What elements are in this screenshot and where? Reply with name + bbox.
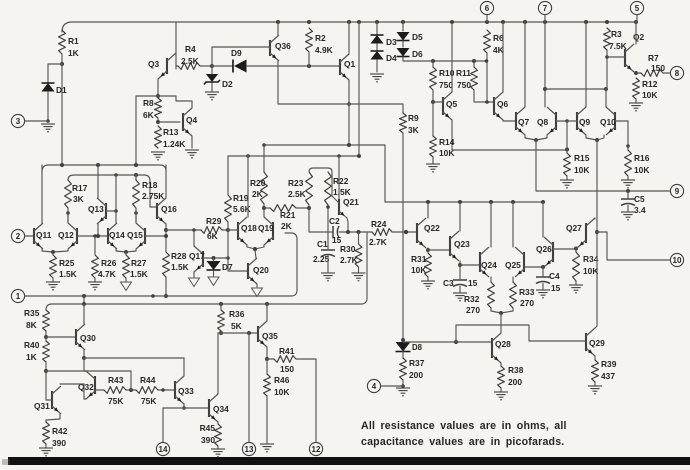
- wire: [264, 207, 270, 209]
- svg-text:Q16: Q16: [161, 204, 177, 214]
- resistor R13: [155, 126, 162, 148]
- wire: [358, 22, 360, 156]
- wire: [575, 249, 577, 252]
- wire Q28 base line: [403, 341, 492, 343]
- wire: [135, 175, 137, 180]
- svg-text:R12: R12: [642, 79, 658, 89]
- wire: [52, 252, 54, 255]
- svg-text:4K: 4K: [493, 45, 504, 55]
- node: [426, 248, 430, 252]
- wire Q31 emitter: [46, 414, 60, 422]
- svg-text:D4: D4: [386, 53, 397, 63]
- svg-text:R41: R41: [279, 346, 295, 356]
- node: [357, 230, 361, 234]
- svg-text:D3: D3: [386, 37, 397, 47]
- wire: [220, 304, 222, 310]
- svg-text:1K: 1K: [68, 48, 79, 58]
- terminal 9: [670, 184, 683, 197]
- node: [431, 59, 435, 63]
- svg-text:750: 750: [457, 80, 471, 90]
- node: [161, 388, 165, 392]
- svg-text:2.5K: 2.5K: [288, 189, 306, 199]
- resistor R19: [225, 195, 232, 222]
- capacitor C5: [621, 198, 635, 200]
- wire: [381, 385, 403, 387]
- wire Q17 emitter: [193, 272, 195, 277]
- wire Q18 collector: [247, 156, 249, 217]
- wire R17R18 line: [68, 175, 157, 207]
- resistor R26: [92, 255, 99, 278]
- node: [485, 59, 489, 63]
- wire Q12 emitter: [53, 249, 68, 252]
- svg-text:2K: 2K: [281, 221, 292, 231]
- terminal 7: [538, 1, 551, 14]
- wire pin10 jog: [597, 232, 670, 260]
- ground: [151, 151, 165, 153]
- terminal 8: [670, 66, 683, 79]
- wire: [48, 63, 62, 65]
- wire Q8 base: [556, 120, 567, 122]
- transistor Q25: [523, 252, 525, 272]
- svg-text:Q24: Q24: [481, 260, 497, 270]
- node: [337, 154, 341, 158]
- wire: [176, 65, 178, 67]
- wire 145 line: [264, 144, 385, 146]
- node: [307, 64, 311, 68]
- svg-text:R34: R34: [583, 254, 599, 264]
- node: [114, 209, 118, 213]
- wire Q31 collector lead: [60, 383, 84, 385]
- svg-text:Q13: Q13: [88, 204, 104, 214]
- svg-text:5K: 5K: [231, 321, 242, 331]
- transistor Q34: [208, 399, 210, 417]
- wire Q22 emitter: [427, 248, 429, 250]
- wire: [635, 99, 637, 103]
- resistor R2: [306, 28, 313, 52]
- capacitor C2: [332, 226, 334, 238]
- wire: [211, 66, 213, 74]
- node on 202 line: [458, 200, 462, 204]
- wire R9 column: [402, 104, 404, 113]
- wire Q15 emitter: [126, 249, 136, 252]
- node: [404, 230, 408, 234]
- transistor Q36: [269, 40, 271, 56]
- wire: [491, 308, 501, 313]
- diode D6: [397, 48, 410, 57]
- diode D9: [234, 60, 247, 73]
- wire Q26 base: [553, 248, 576, 250]
- wire Q11 collector: [41, 165, 43, 223]
- wire Q13 emitter: [97, 224, 99, 236]
- wire Q7Q8 emitters down: [535, 140, 537, 191]
- svg-text:10K: 10K: [583, 266, 598, 276]
- wire: [545, 88, 606, 90]
- svg-text:15: 15: [551, 283, 561, 293]
- svg-text:R13: R13: [163, 127, 179, 137]
- node: [219, 331, 223, 335]
- transistor Q3: [166, 58, 168, 74]
- wire R22 bottom: [327, 205, 329, 232]
- wire: [200, 65, 212, 67]
- wire Q16 collector: [165, 165, 167, 198]
- svg-text:Q7: Q7: [518, 117, 530, 127]
- resistor R25: [50, 255, 57, 278]
- node: [129, 388, 133, 392]
- wire: [278, 103, 403, 105]
- wire Q34 emitter: [217, 422, 219, 424]
- svg-text:D2: D2: [222, 79, 233, 89]
- wire: [45, 337, 47, 341]
- node: [151, 294, 155, 298]
- svg-text:2.7K: 2.7K: [369, 237, 387, 247]
- resistor R8: [155, 98, 162, 118]
- wire: [403, 60, 486, 62]
- wire Q11 emitter: [42, 249, 53, 252]
- wire Q21 base: [338, 156, 340, 199]
- svg-text:4: 4: [372, 382, 377, 391]
- transistor Q32: [94, 376, 96, 394]
- transistor Q22: [416, 223, 418, 243]
- wire: [94, 236, 96, 255]
- node on lower bus: [219, 302, 223, 306]
- transistor Q20: [247, 263, 249, 279]
- transistor Q11: [33, 228, 35, 244]
- transistor Q8: [555, 112, 557, 130]
- terminal 2: [11, 229, 24, 242]
- svg-text:Q2: Q2: [633, 32, 645, 42]
- ground: [321, 272, 335, 274]
- svg-text:Q3: Q3: [148, 59, 160, 69]
- wire Q1 collector: [348, 22, 350, 54]
- svg-text:150: 150: [280, 364, 294, 374]
- wire Q25 collector: [512, 202, 514, 247]
- wire: [45, 444, 47, 448]
- svg-text:R1: R1: [68, 36, 79, 46]
- wire: [135, 96, 137, 165]
- svg-text:2.5K: 2.5K: [181, 56, 199, 66]
- svg-text:R9: R9: [408, 113, 419, 123]
- node: [210, 64, 214, 68]
- resistor R3: [604, 28, 611, 50]
- svg-text:R39: R39: [601, 359, 617, 369]
- wire: [473, 61, 475, 67]
- wire R20 feed: [263, 145, 265, 172]
- node: [44, 369, 48, 373]
- ground: [426, 163, 440, 165]
- svg-text:C5: C5: [634, 194, 645, 204]
- svg-text:Q30: Q30: [80, 333, 96, 343]
- node on 202 line: [541, 200, 545, 204]
- svg-text:10K: 10K: [411, 265, 426, 275]
- wire lower bus: [46, 232, 367, 310]
- wire Q24 collector: [490, 202, 492, 247]
- node on V+ rail: [501, 20, 505, 24]
- wire: [486, 53, 488, 102]
- svg-text:200: 200: [409, 370, 423, 380]
- svg-text:R14: R14: [439, 137, 455, 147]
- svg-text:R36: R36: [229, 309, 245, 319]
- resistor R28: [163, 252, 170, 277]
- transistor Q17: [202, 251, 204, 267]
- svg-text:Q26: Q26: [536, 244, 552, 254]
- transistor Q7: [515, 112, 517, 130]
- svg-text:R30: R30: [340, 244, 356, 254]
- svg-text:R35: R35: [24, 308, 40, 318]
- node: [182, 406, 186, 410]
- wire Q1 emitter: [348, 80, 350, 145]
- node: [134, 211, 138, 215]
- node: [114, 173, 118, 177]
- svg-text:R2: R2: [315, 33, 326, 43]
- svg-text:R21: R21: [280, 210, 296, 220]
- node: [265, 357, 269, 361]
- resistor R1: [59, 30, 66, 54]
- node: [212, 256, 216, 260]
- resistor R6: [484, 30, 491, 53]
- svg-text:6K: 6K: [207, 231, 218, 241]
- svg-text:Q20: Q20: [253, 265, 269, 275]
- node: [543, 87, 547, 91]
- node: [357, 154, 361, 158]
- wire: [456, 325, 585, 342]
- svg-text:Q35: Q35: [262, 331, 278, 341]
- svg-text:3: 3: [16, 117, 21, 126]
- wire Q7 emitter: [525, 135, 536, 140]
- wire: [227, 156, 229, 195]
- wire Q29 collector: [595, 326, 597, 328]
- svg-text:Q22: Q22: [424, 223, 440, 233]
- wire Q6 emitter: [503, 120, 516, 121]
- svg-text:R25: R25: [59, 258, 75, 268]
- node: [346, 230, 350, 234]
- terminal 3: [11, 114, 24, 127]
- capacitor C4: [536, 276, 550, 278]
- wire Q27 emitter: [575, 248, 577, 249]
- wire Q5 emitter: [451, 120, 453, 150]
- wire Q12-Q14 bases: [77, 235, 108, 237]
- wire: [248, 333, 250, 442]
- svg-text:Q11: Q11: [36, 230, 52, 240]
- wire 202 line: [385, 201, 543, 203]
- transistor Q15: [144, 228, 146, 244]
- resistor R22: [325, 172, 332, 205]
- svg-text:Q34: Q34: [213, 404, 229, 414]
- wire: [358, 232, 360, 244]
- wire: [213, 258, 215, 261]
- wire Q13 base: [106, 210, 116, 212]
- terminal 10: [670, 253, 683, 266]
- resistor R9: [400, 113, 407, 133]
- transistor Q26: [552, 242, 554, 262]
- wire Q20 emitter: [256, 284, 258, 287]
- resistor R42: [43, 422, 50, 444]
- wire Q29 emitter: [594, 356, 596, 360]
- wire R22R23 tops: [309, 168, 332, 194]
- wire: [83, 296, 85, 304]
- node on V+ rail: [401, 20, 405, 24]
- wire: [594, 382, 596, 386]
- node: [534, 138, 538, 142]
- wire: [94, 278, 96, 282]
- node: [51, 250, 55, 254]
- svg-text:4.9K: 4.9K: [315, 45, 333, 55]
- wire terminal1 bus + guard box: [25, 233, 297, 296]
- ground: [121, 282, 132, 291]
- wire: [267, 358, 274, 360]
- svg-text:Q23: Q23: [454, 239, 470, 249]
- wire: [25, 235, 34, 237]
- svg-text:1.5K: 1.5K: [59, 269, 77, 279]
- wire: [428, 249, 450, 251]
- wire: [402, 57, 404, 61]
- node: [347, 102, 351, 106]
- ground: [588, 385, 602, 387]
- node: [626, 144, 630, 148]
- wire Q24 emitter: [490, 277, 492, 282]
- svg-text:3.4: 3.4: [634, 205, 646, 215]
- wire: [384, 145, 386, 202]
- svg-text:10K: 10K: [574, 165, 589, 175]
- terminal 4: [367, 379, 380, 392]
- wire: [222, 229, 228, 231]
- resistor R34: [573, 252, 580, 281]
- transistor Q4: [182, 113, 184, 131]
- node: [574, 247, 578, 251]
- node: [66, 211, 70, 215]
- wire: [67, 208, 69, 222]
- svg-text:1.5K: 1.5K: [171, 262, 189, 272]
- node: [326, 205, 330, 209]
- wire Q9 emitter: [586, 135, 597, 140]
- node: [499, 311, 503, 315]
- resistor R31: [425, 253, 432, 277]
- wire: [427, 250, 429, 253]
- node: [458, 263, 462, 267]
- wire Q4 emitter: [191, 136, 193, 148]
- node: [262, 143, 266, 147]
- wire: [566, 121, 568, 149]
- wire: [327, 232, 329, 250]
- resistor R46: [264, 374, 271, 396]
- node: [253, 247, 257, 251]
- wire Q18 emitter: [247, 245, 255, 249]
- svg-text:390: 390: [52, 438, 66, 448]
- wire Q20 base: [228, 270, 248, 272]
- svg-text:R40: R40: [24, 340, 40, 350]
- resistor R39: [592, 360, 599, 382]
- wire Q4 base: [158, 121, 180, 123]
- wire: [473, 90, 475, 101]
- wire Q10 emitter: [597, 135, 604, 140]
- diode D5: [397, 32, 410, 41]
- node: [485, 100, 489, 104]
- node: [347, 143, 351, 147]
- ground: [41, 123, 55, 125]
- resistor R12: [633, 78, 640, 99]
- wire: [308, 205, 310, 208]
- wire R43 feed: [95, 389, 104, 391]
- svg-text:R28: R28: [171, 251, 187, 261]
- svg-text:1.5K: 1.5K: [333, 187, 351, 197]
- svg-text:5: 5: [635, 4, 640, 13]
- svg-text:Q1: Q1: [344, 59, 356, 69]
- svg-text:Q19: Q19: [258, 223, 274, 233]
- svg-text:Q21: Q21: [343, 197, 359, 207]
- node on V+ rail: [584, 20, 588, 24]
- resistor R35: [43, 310, 50, 331]
- svg-text:1: 1: [16, 292, 21, 301]
- svg-text:C3: C3: [443, 278, 454, 288]
- resistor R18: [133, 180, 140, 208]
- node: [634, 71, 638, 75]
- node: [192, 228, 196, 232]
- svg-text:R27: R27: [131, 258, 147, 268]
- wire Q26 collector: [542, 202, 544, 237]
- ground: [205, 91, 219, 93]
- svg-text:Q14: Q14: [109, 230, 125, 240]
- wire: [135, 208, 137, 222]
- ground: [88, 281, 102, 283]
- wire: [566, 176, 568, 180]
- svg-text:8K: 8K: [26, 320, 37, 330]
- node on V+ rail: [543, 20, 547, 24]
- svg-text:Q18: Q18: [241, 223, 257, 233]
- svg-text:10K: 10K: [274, 387, 289, 397]
- wire: [213, 257, 228, 259]
- transistor Q13: [105, 203, 107, 219]
- wire: [500, 388, 502, 392]
- resistor R38: [498, 366, 505, 388]
- wire: [25, 120, 48, 122]
- wire Q5 base: [433, 101, 443, 103]
- svg-text:R15: R15: [574, 153, 590, 163]
- node: [565, 148, 569, 152]
- wire Q20 collector: [255, 250, 256, 258]
- node: [134, 173, 138, 177]
- wire Q36 emitter: [277, 61, 279, 104]
- wire: [402, 41, 404, 47]
- wire: [663, 72, 670, 74]
- svg-text:8: 8: [675, 69, 680, 78]
- wire Q18 base: [228, 229, 238, 231]
- svg-text:R17: R17: [72, 183, 88, 193]
- svg-text:R38: R38: [508, 365, 524, 375]
- wire: [125, 252, 127, 255]
- wire Q36 base: [212, 47, 270, 66]
- diode D2 (zener): [206, 74, 218, 82]
- terminal 14: [156, 442, 169, 455]
- wire Q14 collector: [115, 211, 117, 223]
- resistor R43: [104, 387, 126, 394]
- svg-text:R32: R32: [464, 294, 480, 304]
- wire Q12 collector: [67, 213, 69, 223]
- node: [156, 120, 160, 124]
- resistor R7: [641, 70, 663, 77]
- diode D1: [42, 83, 55, 92]
- svg-text:75K: 75K: [141, 396, 156, 406]
- transistor Q14: [107, 228, 109, 244]
- wire: [575, 281, 577, 285]
- transistor Q5: [442, 97, 444, 115]
- ground: [560, 179, 574, 181]
- svg-text:1K: 1K: [26, 352, 37, 362]
- wire: [460, 264, 480, 266]
- node: [626, 189, 630, 193]
- node on 202 line: [489, 200, 493, 204]
- page edge bar: [8, 457, 690, 465]
- node: [401, 384, 405, 388]
- resistor R33: [510, 282, 517, 308]
